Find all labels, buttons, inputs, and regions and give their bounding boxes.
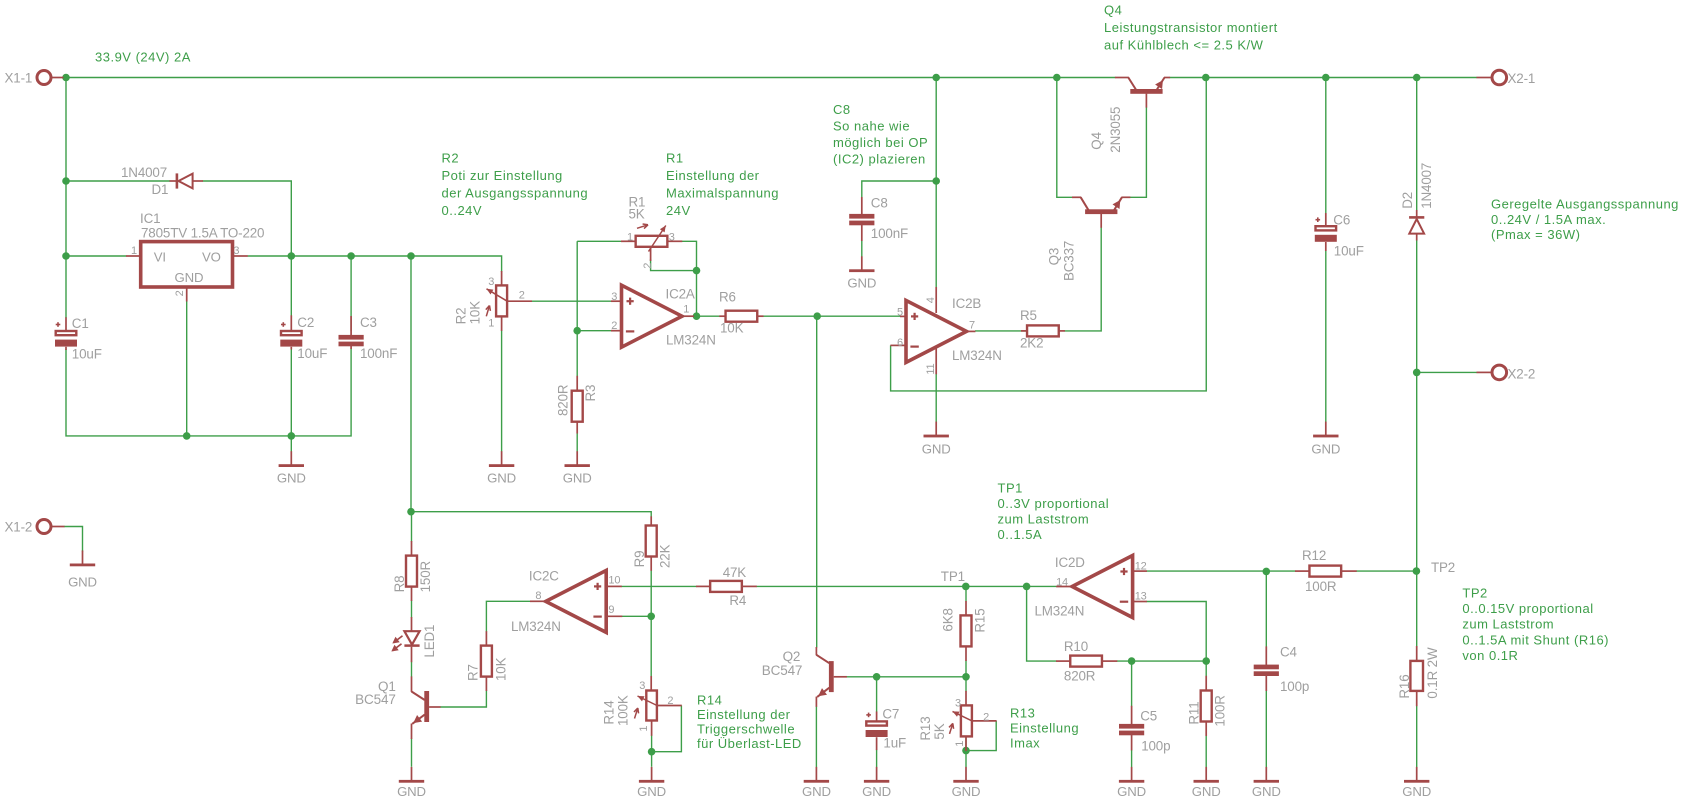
svg-text:47K: 47K xyxy=(723,565,747,580)
svg-text:3: 3 xyxy=(639,680,645,692)
svg-text:X1-2: X1-2 xyxy=(5,520,33,535)
svg-text:R2: R2 xyxy=(454,308,469,325)
wire: voltage-set node down to Q2 collector xyxy=(816,316,818,647)
capacitor C7 1uF xyxy=(866,707,906,751)
ground symbol under C7 xyxy=(862,767,891,799)
wire: C2 bottom to return rail and GND xyxy=(290,349,292,452)
svg-text:Triggerschwelle: Triggerschwelle xyxy=(697,721,795,736)
junction: V+ column / C8 xyxy=(932,177,940,185)
svg-text:R3: R3 xyxy=(583,385,598,402)
resistor R9 22K xyxy=(632,516,672,571)
junction: input rail / IC2B V+ xyxy=(932,74,940,82)
svg-text:R11: R11 xyxy=(1187,701,1202,724)
junction: left column / D1 xyxy=(62,177,70,185)
svg-text:10: 10 xyxy=(608,574,620,586)
svg-text:C4: C4 xyxy=(1280,645,1298,660)
svg-text:0..0.15V proportional: 0..0.15V proportional xyxy=(1462,601,1593,616)
junction: IC2D output node xyxy=(1023,583,1031,591)
wire: R1 tie down to IC2A output node xyxy=(696,271,698,317)
svg-text:D1: D1 xyxy=(152,182,169,197)
svg-text:von 0.1R: von 0.1R xyxy=(1462,648,1518,663)
junction: return rail / GND symbol xyxy=(288,432,296,440)
note: output rating xyxy=(1491,197,1679,243)
svg-text:Einstellung der: Einstellung der xyxy=(697,707,791,722)
svg-text:R13: R13 xyxy=(1010,706,1035,721)
svg-text:2: 2 xyxy=(642,263,654,269)
svg-text:0..3V proportional: 0..3V proportional xyxy=(998,496,1110,511)
svg-text:0..24V: 0..24V xyxy=(442,203,483,218)
LED LED1 xyxy=(391,617,437,662)
wire: feedback column R1-to-R3 xyxy=(576,241,578,376)
svg-text:GND: GND xyxy=(1117,784,1146,799)
svg-text:GND: GND xyxy=(1311,442,1340,457)
note: TP1 description xyxy=(998,481,1110,543)
svg-text:3: 3 xyxy=(669,231,675,243)
svg-text:Imax: Imax xyxy=(1010,736,1040,751)
svg-text:Leistungstransistor montiert: Leistungstransistor montiert xyxy=(1104,20,1278,35)
wire: C3 branch from 5V rail xyxy=(350,256,352,331)
junction: TP1 node / R15 xyxy=(962,583,970,591)
svg-text:TP1: TP1 xyxy=(941,569,965,584)
wire: IC1 GND pin down to return rail xyxy=(186,301,188,436)
svg-text:100nF: 100nF xyxy=(360,346,397,361)
transistor Q1 BC547 xyxy=(355,676,440,739)
transistor Q2 BC547 xyxy=(762,647,847,707)
wire: node down to R8 xyxy=(411,512,413,542)
capacitor C2 10uF xyxy=(280,315,327,361)
svg-text:10uF: 10uF xyxy=(72,347,102,362)
svg-text:R2: R2 xyxy=(442,151,460,166)
potentiometer R14 100K xyxy=(602,676,682,736)
wire: R2 wiper to IC2A non-inverting input xyxy=(532,300,612,302)
wire: R1 pin3 to wiper tie xyxy=(682,241,697,270)
svg-text:R13: R13 xyxy=(918,716,933,740)
svg-text:1: 1 xyxy=(683,304,689,316)
note: C8 placement xyxy=(833,102,928,167)
wire: LED1 cathode to Q1 collector xyxy=(411,662,413,677)
wire: C5 branch xyxy=(1131,661,1133,706)
svg-text:R16: R16 xyxy=(1397,674,1412,698)
wire: R14 pin1 to GND xyxy=(651,735,653,766)
wire: D2 anode down through X2-2 to TP2 node xyxy=(1416,240,1418,571)
wire: IC2C non-inverting input to R4 xyxy=(621,585,696,587)
junction: X2-2 tap xyxy=(1413,369,1421,377)
wire: R2 pot bottom to GND xyxy=(501,331,503,452)
junction: output rail / C6 xyxy=(1322,74,1330,82)
connector pad X1-2 xyxy=(5,520,65,535)
wire: IC2A inverting input xyxy=(577,330,611,332)
svg-text:C1: C1 xyxy=(72,316,89,331)
svg-text:C6: C6 xyxy=(1333,213,1350,228)
wire: R15 bottom to R13 node xyxy=(965,660,967,691)
svg-text:6: 6 xyxy=(897,337,903,349)
svg-text:X2-2: X2-2 xyxy=(1508,367,1536,382)
wire: Q2 base line xyxy=(846,676,966,678)
wire: R10 to divider node xyxy=(1117,660,1206,662)
svg-text:BC547: BC547 xyxy=(762,663,803,678)
op-amp IC2D LM324N xyxy=(1035,555,1147,618)
ground symbol under C8 xyxy=(847,256,876,290)
wire: IC2C output to R7 xyxy=(486,601,530,631)
ground symbol under X1-2 xyxy=(68,551,97,590)
wire: C5 bottom to GND xyxy=(1131,750,1133,767)
svg-text:GND: GND xyxy=(563,471,592,486)
svg-text:LM324N: LM324N xyxy=(1035,603,1085,618)
svg-text:5K: 5K xyxy=(629,206,645,221)
svg-text:100K: 100K xyxy=(616,695,631,726)
svg-text:R14: R14 xyxy=(697,693,722,708)
svg-text:R5: R5 xyxy=(1020,308,1037,323)
ground symbol under R11 xyxy=(1192,767,1221,799)
junction: output rail / feedback xyxy=(1202,74,1210,82)
svg-text:GND: GND xyxy=(277,471,306,486)
svg-text:0..1.5A mit Shunt (R16): 0..1.5A mit Shunt (R16) xyxy=(1462,632,1609,647)
svg-text:Q3: Q3 xyxy=(1047,248,1062,266)
wire: C4 bottom to GND xyxy=(1265,674,1267,767)
wire: C6 branch from output rail xyxy=(1325,78,1327,214)
svg-text:2K2: 2K2 xyxy=(1020,336,1043,351)
transistor Q4 2N3055 xyxy=(1089,78,1170,153)
svg-text:3: 3 xyxy=(233,245,239,257)
resistor R12 100R xyxy=(1295,548,1357,594)
svg-text:4: 4 xyxy=(925,297,937,303)
svg-text:100nF: 100nF xyxy=(871,226,908,241)
svg-text:GND: GND xyxy=(847,275,876,290)
potentiometer R1 5K xyxy=(621,195,682,269)
svg-text:Geregelte Ausgangsspannung: Geregelte Ausgangsspannung xyxy=(1491,197,1679,212)
junction: R13 wiper return node xyxy=(962,747,970,755)
svg-text:C2: C2 xyxy=(297,315,314,330)
svg-text:820R: 820R xyxy=(1064,669,1096,684)
wire: R9 bottom through minus-input node to R14 xyxy=(650,570,652,676)
svg-text:2: 2 xyxy=(174,290,186,296)
svg-text:0..24V / 1.5A max.: 0..24V / 1.5A max. xyxy=(1491,212,1606,227)
wire: IC2D output down to R10 xyxy=(1027,586,1057,661)
note: TP2 description xyxy=(1462,585,1609,663)
resistor R4 47K xyxy=(696,565,757,608)
svg-text:R14: R14 xyxy=(602,700,617,725)
potentiometer R13 5K xyxy=(918,691,997,751)
wire: R6 to IC2B non-inverting input xyxy=(763,315,900,317)
ground symbol under C4 xyxy=(1252,767,1281,799)
wire: +33.9V input rail (X1-1 to Q4 collector) xyxy=(63,77,1115,79)
junction: R1 pin2-pin3 tie xyxy=(693,267,701,275)
connector pad X2-1 xyxy=(1477,70,1536,86)
svg-text:7: 7 xyxy=(969,320,975,332)
ground symbol under R16 xyxy=(1402,767,1431,799)
wire: TP2 node down to R16 shunt xyxy=(1416,571,1418,647)
svg-text:GND: GND xyxy=(802,784,831,799)
svg-text:GND: GND xyxy=(922,442,951,457)
svg-text:IC2A: IC2A xyxy=(666,287,695,302)
wire: node to R9 top xyxy=(411,512,651,517)
svg-text:820R: 820R xyxy=(556,384,571,416)
svg-text:8: 8 xyxy=(535,590,541,602)
wire: R14 wiper return xyxy=(652,706,682,752)
ground symbol under R3 xyxy=(563,451,592,485)
svg-text:auf Kühlblech <= 2.5 K/W: auf Kühlblech <= 2.5 K/W xyxy=(1104,38,1264,53)
wire: rail to Q3 collector xyxy=(1057,78,1073,198)
wire: R8 to LED1 anode xyxy=(411,601,413,618)
wire: D1 branch left segment xyxy=(66,180,170,182)
svg-text:BC337: BC337 xyxy=(1062,241,1077,281)
wire: IC2A output to R6 xyxy=(694,315,720,317)
wire: IC1 VO 5V rail to R2 top xyxy=(248,256,502,272)
note: Q4 mounting xyxy=(1104,3,1278,53)
connector pad X1-1 xyxy=(5,71,64,86)
svg-text:1N4007: 1N4007 xyxy=(1419,163,1434,209)
svg-text:Maximalspannung: Maximalspannung xyxy=(666,186,779,201)
svg-text:0.1R 2W: 0.1R 2W xyxy=(1425,647,1440,699)
ground symbol under R2 xyxy=(487,451,516,485)
capacitor C8 100nF xyxy=(849,196,908,242)
svg-text:GND: GND xyxy=(952,784,981,799)
svg-text:LM324N: LM324N xyxy=(511,619,561,634)
capacitor C5 100p xyxy=(1119,706,1170,754)
wire: X1-2 to GND xyxy=(64,527,83,552)
wire: IC2B feedback from output rail xyxy=(891,78,1207,391)
connector pad X2-2 xyxy=(1477,365,1536,381)
wire: lower return rail C1-C2-C3 xyxy=(66,348,351,436)
svg-text:2: 2 xyxy=(519,289,525,301)
svg-text:R6: R6 xyxy=(719,290,736,305)
wire: R3 bottom to GND xyxy=(576,433,578,452)
ground symbol under R14 xyxy=(637,767,666,799)
svg-text:10uF: 10uF xyxy=(1334,243,1364,258)
svg-text:Q4: Q4 xyxy=(1104,3,1122,18)
wire: Q3 emitter to Q4 base xyxy=(1130,107,1146,197)
svg-text:Poti zur Einstellung: Poti zur Einstellung xyxy=(442,168,563,183)
svg-text:R10: R10 xyxy=(1064,639,1088,654)
svg-text:C8: C8 xyxy=(871,196,888,211)
svg-text:zum Laststrom: zum Laststrom xyxy=(998,512,1090,527)
wire: R5 to Q3 base xyxy=(1065,228,1102,331)
resistor R11 100R xyxy=(1187,676,1228,736)
svg-text:LM324N: LM324N xyxy=(952,348,1002,363)
svg-text:IC2B: IC2B xyxy=(952,296,981,311)
svg-text:(IC2) plazieren: (IC2) plazieren xyxy=(833,152,926,167)
svg-text:Q2: Q2 xyxy=(783,649,801,664)
junction: VO rail / C3 xyxy=(347,252,355,260)
wire: IC2B output to R5 xyxy=(975,330,1027,332)
svg-text:GND: GND xyxy=(487,471,516,486)
junction: TP2 node xyxy=(1413,567,1421,575)
wire: R13 pin1 to GND xyxy=(965,737,967,767)
svg-text:10K: 10K xyxy=(494,657,509,681)
svg-text:33.9V (24V) 2A: 33.9V (24V) 2A xyxy=(95,50,191,65)
wire: left input column down to C1 xyxy=(65,78,67,319)
svg-text:für Überlast-LED: für Überlast-LED xyxy=(697,736,802,751)
svg-text:24V: 24V xyxy=(666,203,691,218)
test point label TP2 xyxy=(1431,560,1455,575)
svg-text:12: 12 xyxy=(1135,560,1147,572)
wire: R11 bottom to GND xyxy=(1205,736,1207,767)
junction: IC2D+ line / C4 xyxy=(1263,568,1271,576)
svg-text:BC547: BC547 xyxy=(355,692,396,707)
ground symbol under C5 xyxy=(1117,767,1146,799)
svg-text:3: 3 xyxy=(488,276,494,288)
junction: divider node / R11 xyxy=(1202,657,1210,665)
wire: D2 cathode branch xyxy=(1416,78,1418,211)
resistor R7 10K xyxy=(466,631,509,691)
junction: Q2 base / C7 xyxy=(873,673,881,681)
svg-text:LM324N: LM324N xyxy=(666,333,716,348)
resistor R3 820R xyxy=(556,376,598,434)
diode D1 1N4007 xyxy=(121,165,203,197)
svg-text:150R: 150R xyxy=(418,561,433,593)
svg-text:R15: R15 xyxy=(973,608,988,632)
svg-text:3: 3 xyxy=(955,697,961,709)
svg-text:Einstellung: Einstellung xyxy=(1010,721,1079,736)
wire: R7 to Q1 base xyxy=(440,691,486,708)
wire: IC2B V+ pin4 column from rail xyxy=(935,78,937,288)
op-amp IC2C LM324N xyxy=(511,569,622,634)
svg-text:13: 13 xyxy=(1135,591,1147,603)
wire: D1 anode to VO rail xyxy=(203,181,292,256)
junction: input rail / Q3 collector xyxy=(1053,74,1061,82)
ground symbol under Q1 xyxy=(397,767,426,799)
svg-text:10K: 10K xyxy=(468,301,483,325)
svg-text:GND: GND xyxy=(175,270,204,285)
resistor R16 0.1R 2W shunt xyxy=(1397,646,1440,706)
svg-text:GND: GND xyxy=(862,784,891,799)
svg-text:GND: GND xyxy=(68,575,97,590)
svg-text:GND: GND xyxy=(1252,784,1281,799)
svg-text:GND: GND xyxy=(397,784,426,799)
svg-text:der Ausgangsspannung: der Ausgangsspannung xyxy=(442,186,589,201)
junction: VO rail / D1 / C2 xyxy=(288,252,296,260)
svg-text:5: 5 xyxy=(897,307,903,319)
note: R14 function xyxy=(697,693,802,751)
wire: IC2D non-inverting input to R12 xyxy=(1147,570,1296,572)
wire: C7 bottom to GND xyxy=(876,750,878,767)
svg-text:11: 11 xyxy=(925,363,937,374)
junction: IC2A feedback node xyxy=(573,327,581,335)
junction: output rail / D2 xyxy=(1413,74,1421,82)
wire: R13 wiper return xyxy=(966,721,996,751)
wire: TP1 line R4 to IC2D output xyxy=(756,585,1056,587)
svg-text:VO: VO xyxy=(202,250,221,265)
junction: VO rail / branch down xyxy=(407,252,415,260)
note: R13 function xyxy=(1010,706,1079,751)
ground symbol under C6 xyxy=(1311,422,1340,457)
svg-text:möglich bei OP: möglich bei OP xyxy=(833,135,928,150)
svg-text:100R: 100R xyxy=(1305,579,1337,594)
voltage regulator IC1 7805TV xyxy=(126,211,264,302)
wire: C7 branch xyxy=(876,677,878,712)
svg-text:9: 9 xyxy=(608,604,614,616)
junction: R8 / R9 node xyxy=(407,508,415,516)
wire: C4 branch from +input line xyxy=(1265,571,1267,646)
svg-text:1: 1 xyxy=(954,741,966,747)
svg-text:R9: R9 xyxy=(632,551,647,568)
svg-text:TP1: TP1 xyxy=(998,481,1023,496)
svg-text:IC1: IC1 xyxy=(140,211,160,226)
svg-text:C7: C7 xyxy=(882,707,899,722)
note: input voltage label xyxy=(95,50,191,65)
transistor Q3 BC337 xyxy=(1047,197,1131,281)
svg-text:IC2C: IC2C xyxy=(529,569,559,584)
wire: Q2 emitter to GND xyxy=(815,706,817,767)
svg-text:1: 1 xyxy=(627,231,633,243)
svg-text:7805TV 1.5A TO-220: 7805TV 1.5A TO-220 xyxy=(141,226,264,241)
wire: C6 bottom to GND xyxy=(1325,251,1327,423)
svg-text:2: 2 xyxy=(983,712,989,724)
svg-text:X2-1: X2-1 xyxy=(1508,71,1536,86)
note: R1 function xyxy=(666,151,779,219)
svg-text:3: 3 xyxy=(611,291,617,303)
wire: C2 branch from 5V rail xyxy=(290,256,292,316)
junction: IC2C minus input node xyxy=(647,613,655,621)
svg-text:1uF: 1uF xyxy=(883,736,906,751)
svg-text:2: 2 xyxy=(667,695,673,707)
diode D2 1N4007 xyxy=(1400,163,1434,241)
svg-text:2: 2 xyxy=(611,320,617,332)
ground symbol under C2 rail xyxy=(277,451,306,485)
wire: regulated output rail (Q4 emitter to X2-1) xyxy=(1170,77,1477,79)
svg-text:100p: 100p xyxy=(1280,679,1309,694)
wire: R12 to TP2 node xyxy=(1356,570,1416,572)
junction: left column / IC1 VI xyxy=(62,252,70,260)
svg-text:R8: R8 xyxy=(392,576,407,593)
wire: R16 bottom to GND xyxy=(1416,706,1418,767)
svg-text:2N3055: 2N3055 xyxy=(1108,107,1123,153)
svg-text:R12: R12 xyxy=(1302,548,1326,563)
resistor R10 820R xyxy=(1056,639,1117,683)
svg-text:22K: 22K xyxy=(657,544,672,568)
test point label TP1 xyxy=(941,569,965,584)
svg-text:R1: R1 xyxy=(666,151,684,166)
capacitor C4 100p xyxy=(1254,645,1310,695)
svg-text:(Pmax = 36W): (Pmax = 36W) xyxy=(1491,227,1580,242)
svg-text:1: 1 xyxy=(488,318,494,330)
resistor R15 6K8 xyxy=(941,601,988,661)
svg-text:VI: VI xyxy=(154,250,166,265)
svg-text:C5: C5 xyxy=(1140,709,1157,724)
svg-text:C3: C3 xyxy=(360,315,377,330)
svg-text:1: 1 xyxy=(638,726,650,732)
junction: return rail / IC1 GND xyxy=(183,432,191,440)
svg-text:TP2: TP2 xyxy=(1462,585,1487,600)
capacitor C1 10uF xyxy=(55,316,102,362)
svg-text:100p: 100p xyxy=(1141,739,1170,754)
svg-text:GND: GND xyxy=(1192,784,1221,799)
resistor R5 2K2 xyxy=(1020,308,1065,351)
ground symbol under Q2 xyxy=(802,767,831,799)
wire: X2-2 tap xyxy=(1417,371,1477,373)
svg-text:10K: 10K xyxy=(720,321,744,336)
wire: R1 pin2 wiper tie xyxy=(651,259,697,271)
svg-text:Einstellung der: Einstellung der xyxy=(666,168,760,183)
svg-text:GND: GND xyxy=(1402,784,1431,799)
junction: R6 / IC2B+ / Q2 collector xyxy=(813,312,821,320)
op-amp IC2A LM324N xyxy=(611,285,716,347)
wire: C8 branch xyxy=(862,181,936,198)
potentiometer R2 10K xyxy=(454,271,533,331)
svg-text:R4: R4 xyxy=(729,593,747,608)
ground symbol under IC2B pin11 xyxy=(922,422,951,457)
svg-text:C8: C8 xyxy=(833,102,851,117)
svg-text:X1-1: X1-1 xyxy=(5,71,33,86)
resistor R8 150R xyxy=(392,541,433,601)
wire: IC1 VI pin connection xyxy=(66,255,126,257)
svg-text:10uF: 10uF xyxy=(297,346,327,361)
junction: R10 / C5 xyxy=(1128,657,1136,665)
svg-text:IC2D: IC2D xyxy=(1055,555,1085,570)
svg-text:5K: 5K xyxy=(932,723,947,739)
junction: input rail / left column xyxy=(62,74,70,82)
svg-text:1N4007: 1N4007 xyxy=(121,165,167,180)
